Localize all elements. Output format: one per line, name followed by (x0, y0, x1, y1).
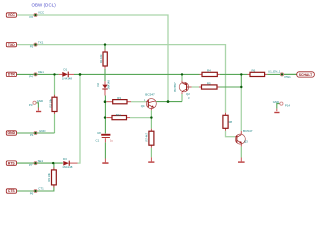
svg-text:SCHALT: SCHALT (299, 73, 313, 77)
svg-text:1N4148: 1N4148 (62, 76, 73, 80)
svg-text:CTS: CTS (8, 189, 16, 193)
svg-text:VCC: VCC (38, 11, 44, 15)
svg-text:GND: GND (273, 100, 279, 104)
svg-text:R1 10k: R1 10k (99, 54, 103, 63)
svg-text:R3: R3 (117, 96, 121, 100)
svg-text:Q2: Q2 (186, 92, 190, 96)
svg-text:R4: R4 (207, 68, 211, 72)
svg-text:R8: R8 (229, 120, 233, 124)
svg-text:P6: P6 (30, 191, 34, 195)
svg-text:U1_EN_1: U1_EN_1 (268, 70, 281, 74)
svg-text:D3: D3 (63, 157, 67, 161)
svg-text:OBW (DCL): OBW (DCL) (32, 3, 57, 8)
svg-text:CT1: CT1 (38, 187, 44, 191)
svg-text:BC557: BC557 (173, 82, 177, 92)
svg-text:U8: U8 (97, 131, 101, 135)
svg-text:TXD: TXD (8, 43, 15, 47)
svg-text:R11: R11 (116, 113, 121, 117)
svg-text:RTS: RTS (8, 161, 16, 165)
svg-text:P3: P3 (29, 103, 33, 107)
svg-text:1u: 1u (110, 138, 113, 142)
svg-text:BC547: BC547 (243, 129, 253, 133)
svg-text:TX1: TX1 (38, 40, 44, 44)
svg-text:1N4148: 1N4148 (106, 80, 110, 90)
svg-text:Q3: Q3 (244, 139, 248, 143)
svg-text:1N4148: 1N4148 (62, 165, 73, 169)
svg-text:Q4: Q4 (141, 104, 145, 108)
svg-text:GND: GND (8, 131, 16, 135)
svg-text:P4: P4 (29, 74, 33, 78)
svg-text:R5: R5 (207, 81, 211, 85)
svg-text:DTR: DTR (8, 73, 16, 77)
svg-text:P2: P2 (30, 15, 34, 19)
svg-text:VCC: VCC (8, 13, 16, 17)
svg-text:P1: P1 (30, 133, 34, 137)
svg-text:DE1: DE1 (38, 70, 44, 74)
svg-text:D1: D1 (64, 67, 68, 71)
svg-text:PW1: PW1 (285, 75, 292, 79)
svg-text:P7: P7 (29, 163, 33, 167)
svg-text:3: 3 (188, 96, 190, 100)
svg-text:GND: GND (37, 99, 43, 103)
svg-text:D2: D2 (96, 83, 100, 87)
svg-text:P14: P14 (285, 103, 291, 107)
svg-text:GND: GND (39, 129, 45, 133)
svg-text:SE1: SE1 (38, 159, 44, 163)
svg-text:P5: P5 (30, 45, 34, 49)
svg-text:C1: C1 (96, 138, 100, 142)
svg-text:R2 10k: R2 10k (48, 98, 52, 107)
svg-text:R6: R6 (252, 68, 256, 72)
svg-text:BC547: BC547 (145, 93, 155, 97)
svg-text:R9 10k: R9 10k (47, 172, 51, 181)
svg-text:R7 4k7: R7 4k7 (145, 132, 149, 141)
